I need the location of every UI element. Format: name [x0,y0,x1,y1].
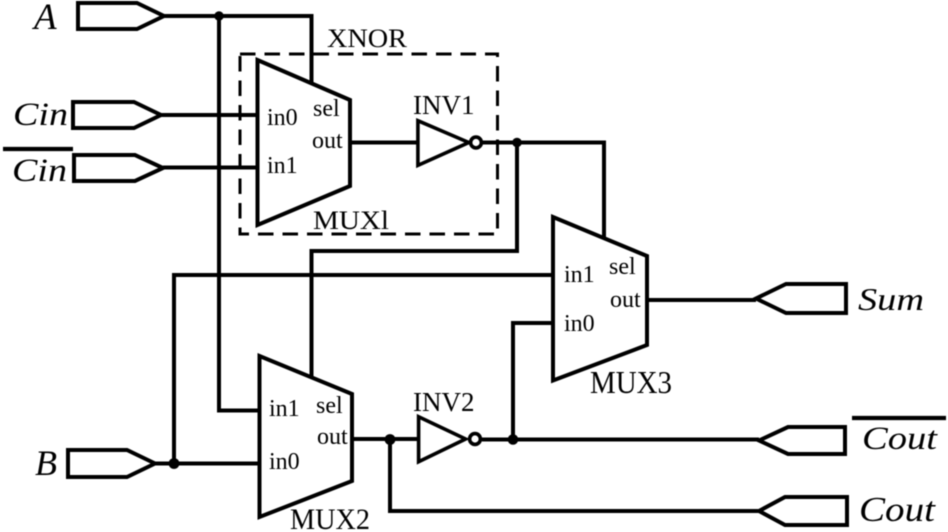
svg-text:in1: in1 [267,153,298,179]
svg-text:sel: sel [313,96,340,122]
svg-text:INV2: INV2 [413,387,475,417]
svg-text:B: B [35,443,57,483]
svg-text:in1: in1 [269,396,300,422]
svg-text:A: A [31,0,57,38]
svg-text:Cin: Cin [13,97,68,133]
svg-text:MUX3: MUX3 [590,364,672,400]
svg-text:out: out [312,128,343,154]
svg-text:in0: in0 [269,449,300,475]
svg-text:Cout: Cout [859,490,936,529]
svg-text:MUXl: MUXl [313,206,389,235]
svg-text:INV1: INV1 [413,90,475,120]
svg-text:in0: in0 [267,105,298,131]
svg-text:Sum: Sum [858,281,924,317]
svg-text:sel: sel [316,393,343,419]
svg-text:MUX2: MUX2 [290,503,370,532]
svg-text:out: out [610,287,641,313]
svg-text:in1: in1 [564,262,595,288]
svg-text:out: out [317,424,348,450]
svg-text:in0: in0 [564,311,595,337]
svg-text:sel: sel [609,254,636,280]
svg-text:XNOR: XNOR [327,24,408,53]
svg-text:Cin: Cin [12,153,67,189]
svg-text:Cout: Cout [862,421,938,457]
